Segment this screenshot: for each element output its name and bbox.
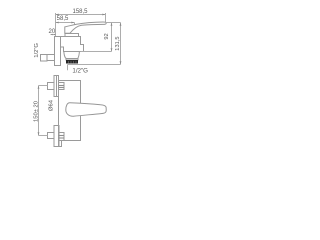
svg-text:Ø64: Ø64 (49, 99, 55, 111)
svg-text:58,5: 58,5 (57, 16, 69, 22)
svg-text:131,5: 131,5 (115, 36, 121, 50)
svg-text:1/2"G: 1/2"G (34, 43, 40, 58)
svg-text:150± 20: 150± 20 (34, 101, 40, 122)
svg-text:92: 92 (104, 33, 110, 39)
svg-text:1/2"G: 1/2"G (72, 68, 88, 75)
